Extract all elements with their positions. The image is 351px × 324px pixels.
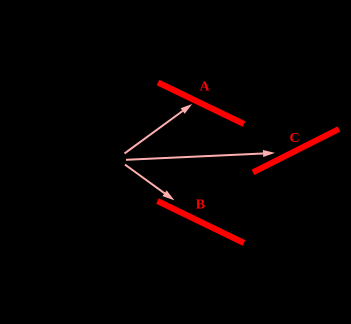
ray arrow toward B bbox=[125, 165, 175, 201]
ray arrow toward A bbox=[125, 104, 193, 154]
mirror segment C bbox=[253, 129, 339, 172]
ray arrow toward C bbox=[126, 150, 275, 160]
mirror segment B bbox=[158, 201, 245, 243]
mirror segment A bbox=[158, 83, 244, 125]
svg-text:C: C bbox=[290, 131, 300, 146]
svg-text:A: A bbox=[199, 80, 210, 95]
svg-text:B: B bbox=[196, 198, 205, 213]
